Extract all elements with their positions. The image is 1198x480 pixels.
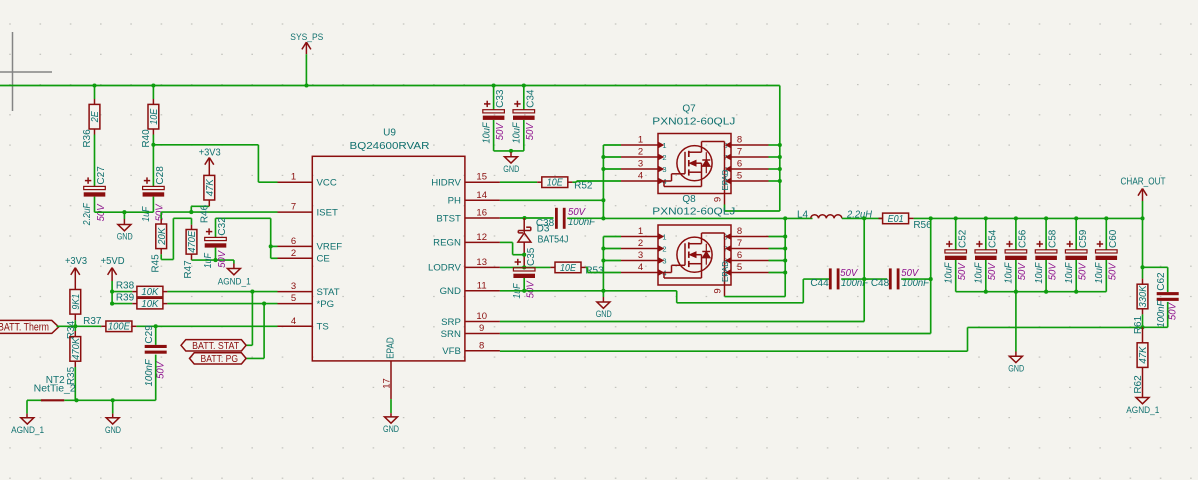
svg-text:VFB: VFB: [442, 346, 461, 357]
svg-text:50V: 50V: [526, 280, 537, 298]
svg-text:R45: R45: [150, 254, 161, 273]
svg-text:10E: 10E: [149, 108, 160, 124]
svg-text:3: 3: [291, 281, 296, 292]
svg-text:50V: 50V: [957, 262, 968, 280]
svg-text:BQ24600RVAR: BQ24600RVAR: [350, 141, 430, 152]
svg-text:TS: TS: [317, 322, 329, 333]
svg-text:L4: L4: [797, 209, 809, 220]
svg-text:50V: 50V: [525, 122, 536, 140]
svg-text:16: 16: [476, 208, 487, 219]
svg-text:1uF: 1uF: [203, 252, 214, 268]
svg-text:6: 6: [737, 250, 742, 261]
svg-text:330K: 330K: [1138, 284, 1149, 307]
svg-text:LODRV: LODRV: [428, 263, 461, 274]
svg-text:C54: C54: [987, 229, 998, 248]
svg-text:50V: 50V: [987, 262, 998, 280]
svg-text:10uF: 10uF: [943, 262, 954, 284]
svg-text:12: 12: [476, 232, 487, 243]
svg-text:C34: C34: [525, 89, 536, 108]
svg-text:CE: CE: [317, 254, 330, 265]
svg-text:R38: R38: [116, 280, 135, 291]
svg-text:20K: 20K: [157, 227, 168, 246]
svg-text:GND: GND: [1008, 362, 1024, 373]
svg-text:C58: C58: [1048, 229, 1059, 248]
svg-text:R47: R47: [183, 260, 194, 279]
svg-text:50V: 50V: [1078, 262, 1089, 280]
svg-text:C29: C29: [144, 325, 155, 344]
svg-text:C28: C28: [155, 166, 166, 185]
svg-text:R46: R46: [200, 204, 211, 223]
svg-text:10uF: 10uF: [512, 122, 523, 144]
svg-text:C60: C60: [1108, 229, 1119, 248]
svg-text:5: 5: [737, 262, 742, 273]
svg-text:EPAD: EPAD: [720, 170, 730, 191]
svg-text:10E: 10E: [560, 263, 576, 274]
svg-text:50V: 50V: [1108, 262, 1119, 280]
svg-text:2.2uF: 2.2uF: [82, 202, 93, 226]
svg-text:C32: C32: [217, 217, 228, 236]
svg-text:9: 9: [713, 197, 724, 202]
svg-text:C52: C52: [957, 229, 968, 248]
svg-text:470K: 470K: [71, 337, 82, 360]
svg-text:BATT. PG: BATT. PG: [201, 354, 239, 365]
svg-text:SRP: SRP: [441, 317, 461, 328]
svg-text:1: 1: [638, 135, 643, 146]
svg-text:VREF: VREF: [317, 242, 343, 253]
svg-text:1: 1: [291, 172, 296, 183]
svg-text:9K1: 9K1: [71, 294, 82, 310]
svg-text:SRN: SRN: [441, 329, 461, 340]
svg-text:+3V3: +3V3: [65, 256, 87, 267]
svg-text:50V: 50V: [217, 250, 228, 268]
svg-text:5: 5: [291, 293, 296, 304]
svg-text:C48: C48: [871, 278, 890, 289]
svg-text:10uF: 10uF: [1094, 262, 1105, 284]
svg-text:C44: C44: [810, 278, 829, 289]
svg-text:2E: 2E: [90, 111, 101, 123]
svg-text:1uF: 1uF: [141, 206, 152, 222]
svg-text:R40: R40: [141, 129, 152, 148]
svg-text:10K: 10K: [141, 287, 159, 298]
svg-text:13: 13: [476, 257, 487, 268]
svg-text:10uF: 10uF: [1004, 262, 1015, 284]
svg-text:11: 11: [477, 280, 487, 291]
svg-text:2: 2: [291, 248, 296, 259]
svg-text:GND: GND: [383, 423, 399, 434]
svg-text:50V: 50V: [1017, 262, 1028, 280]
svg-text:REGN: REGN: [433, 238, 461, 249]
svg-text:C62: C62: [1156, 272, 1167, 291]
svg-text:AGND_1: AGND_1: [1126, 405, 1159, 416]
svg-text:C33: C33: [495, 89, 506, 108]
svg-text:470E: 470E: [187, 230, 198, 252]
svg-text:6: 6: [291, 236, 296, 247]
svg-text:100E: 100E: [108, 322, 130, 333]
svg-text:9: 9: [713, 288, 724, 293]
svg-text:10uF: 10uF: [1034, 262, 1045, 284]
svg-text:C59: C59: [1078, 229, 1089, 248]
svg-text:STAT: STAT: [317, 287, 340, 298]
svg-text:CHAR_OUT: CHAR_OUT: [1121, 177, 1166, 188]
svg-text:PH: PH: [448, 196, 461, 207]
svg-text:HIDRV: HIDRV: [431, 178, 461, 189]
svg-text:2: 2: [638, 147, 643, 158]
svg-text:10uF: 10uF: [1064, 262, 1075, 284]
svg-text:2: 2: [638, 238, 643, 249]
svg-text:50V: 50V: [1047, 262, 1058, 280]
svg-text:3: 3: [638, 159, 643, 170]
svg-text:17: 17: [382, 378, 393, 389]
svg-text:50V: 50V: [495, 122, 506, 140]
svg-text:GND: GND: [503, 163, 519, 174]
svg-text:+3V3: +3V3: [199, 147, 221, 158]
svg-text:Q8: Q8: [682, 194, 696, 205]
svg-text:10E: 10E: [547, 178, 563, 189]
svg-text:AGND_1: AGND_1: [218, 276, 251, 287]
svg-text:BATT. STAT: BATT. STAT: [192, 341, 239, 352]
svg-text:9: 9: [479, 323, 484, 334]
svg-text:7: 7: [291, 202, 296, 213]
svg-text:50V: 50V: [1168, 302, 1179, 320]
svg-text:10uF: 10uF: [481, 122, 492, 144]
svg-text:BTST: BTST: [436, 213, 461, 224]
svg-text:8: 8: [737, 135, 742, 146]
svg-text:5: 5: [737, 171, 742, 182]
svg-text:6: 6: [737, 159, 742, 170]
svg-text:15: 15: [476, 172, 487, 183]
svg-text:SYS_PS: SYS_PS: [290, 32, 323, 42]
svg-text:4: 4: [638, 262, 643, 273]
svg-text:C56: C56: [1018, 229, 1029, 248]
svg-text:1: 1: [638, 226, 643, 237]
svg-text:U9: U9: [383, 128, 396, 139]
svg-text:100nF: 100nF: [1156, 300, 1167, 328]
svg-text:R37: R37: [83, 316, 102, 327]
svg-text:EPAD: EPAD: [386, 337, 397, 359]
svg-text:D3: D3: [537, 224, 550, 235]
svg-text:47K: 47K: [1138, 345, 1149, 363]
svg-text:BATT. Therm: BATT. Therm: [0, 322, 49, 334]
svg-text:BAT54J: BAT54J: [538, 235, 569, 246]
svg-text:+5VD: +5VD: [101, 256, 125, 267]
svg-text:E01: E01: [888, 214, 904, 225]
svg-text:4: 4: [638, 171, 643, 182]
svg-text:10: 10: [476, 311, 487, 322]
svg-text:47K: 47K: [205, 178, 216, 196]
svg-text:GND: GND: [117, 231, 133, 242]
svg-text:8: 8: [737, 226, 742, 237]
svg-text:NetTie_2: NetTie_2: [34, 384, 76, 395]
svg-text:VCC: VCC: [317, 178, 337, 189]
svg-text:ISET: ISET: [317, 207, 338, 218]
svg-text:EPAD: EPAD: [720, 261, 730, 282]
svg-text:4: 4: [291, 316, 296, 327]
svg-text:7: 7: [737, 147, 742, 158]
svg-text:R39: R39: [116, 292, 135, 303]
svg-text:AGND_1: AGND_1: [11, 425, 44, 436]
svg-text:PXN012-60QLJ: PXN012-60QLJ: [652, 117, 735, 128]
svg-text:100nF: 100nF: [144, 359, 155, 387]
svg-text:7: 7: [737, 238, 742, 249]
svg-text:Q7: Q7: [682, 104, 696, 115]
svg-text:R36: R36: [82, 129, 93, 148]
svg-text:3: 3: [638, 250, 643, 261]
svg-text:GND: GND: [105, 424, 121, 435]
svg-text:GND: GND: [440, 286, 461, 297]
svg-text:*PG: *PG: [317, 299, 335, 310]
svg-text:C27: C27: [96, 166, 107, 185]
svg-text:14: 14: [476, 190, 487, 201]
svg-text:10K: 10K: [141, 299, 159, 310]
svg-text:PXN012-60QLJ: PXN012-60QLJ: [652, 207, 735, 218]
svg-text:C35: C35: [526, 247, 537, 266]
svg-text:10uF: 10uF: [974, 262, 985, 284]
svg-text:50V: 50V: [156, 361, 167, 379]
svg-text:GND: GND: [596, 308, 612, 319]
svg-text:R56: R56: [913, 220, 932, 231]
svg-text:8: 8: [479, 340, 484, 351]
